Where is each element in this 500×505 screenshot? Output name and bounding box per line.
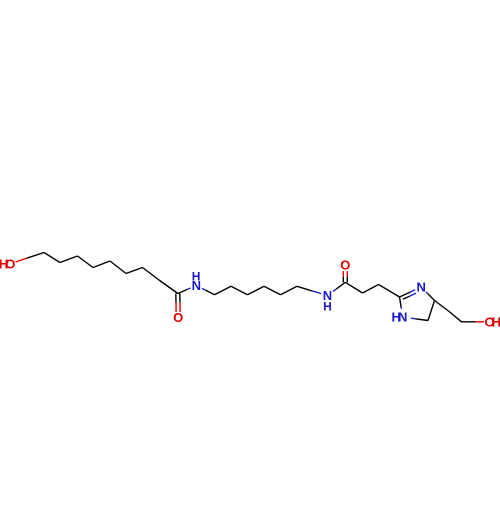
bond CH2-CH2 [363, 285, 379, 294]
bond CH2-N right amide [297, 286, 312, 291]
bond N-CH2 linker start [202, 288, 206, 290]
bond O-C1 from hydroxyl HO [16, 258, 28, 262]
svg-text:N: N [398, 310, 407, 325]
bond CH2-CH2 of hydroxyethyl [449, 311, 462, 322]
bond C8-C9 carbonyl [159, 280, 178, 294]
svg-text:H: H [492, 314, 500, 329]
svg-text:H: H [192, 270, 201, 284]
linker bond 4 [264, 286, 281, 295]
ring double bond C2=N3 inner line [403, 296, 410, 299]
bond ring C4 to CH2 [435, 301, 449, 312]
linker bond 1 [215, 286, 232, 295]
bond C6-C7 [126, 268, 143, 274]
C=O double bond right amide line 2 [342, 277, 344, 283]
bond C5-C6 [110, 261, 126, 274]
bond CH2 to ring C2 [379, 285, 400, 298]
bond CH2-OH [462, 321, 476, 323]
C=O double bond left amide line 1 [175, 294, 177, 303]
bond C4-C5 [93, 261, 110, 268]
bond N-C right amide carbonyl [333, 289, 336, 292]
bond C7-C8 [143, 268, 160, 281]
bond carbonyl-CH2 [345, 282, 362, 293]
bond C1-C2 [44, 253, 60, 263]
bond C9-N left amide [178, 290, 187, 294]
C=O double bond left amide line 2 [179, 294, 181, 303]
svg-text:N: N [417, 280, 426, 295]
linker bond 3 [248, 286, 265, 295]
C=O double bond right amide line 1 [346, 277, 348, 283]
svg-text:O: O [340, 257, 350, 272]
bond C2-C3 [60, 256, 78, 263]
linker bond 5 [281, 286, 298, 295]
svg-text:O: O [5, 256, 15, 271]
svg-text:H: H [323, 299, 332, 313]
ring bond C4-C5 [428, 301, 435, 321]
linker bond 2 [231, 286, 248, 295]
ring double bond C2=N3 main line [400, 292, 411, 297]
ring bond C5-N1 [415, 319, 428, 321]
ring bond N3-C4 [426, 292, 428, 294]
svg-text:O: O [173, 310, 183, 325]
bond C3-C4 [78, 256, 94, 268]
ring bond N1-C2 [400, 307, 402, 309]
